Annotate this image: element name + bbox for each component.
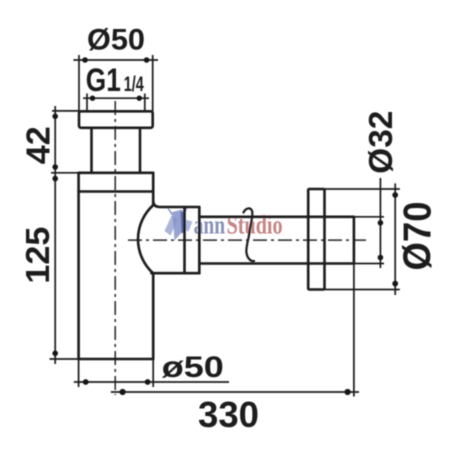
svg-text:ø50: ø50 <box>162 351 224 384</box>
svg-text:Ø70: Ø70 <box>397 202 440 271</box>
svg-text:1/4: 1/4 <box>124 73 144 96</box>
svg-text:330: 330 <box>198 394 259 435</box>
svg-text:Studio: Studio <box>227 210 283 240</box>
svg-text:42: 42 <box>19 126 56 164</box>
svg-text:Ø50: Ø50 <box>87 23 145 56</box>
svg-text:G1: G1 <box>86 62 121 98</box>
svg-text:125: 125 <box>19 227 56 284</box>
svg-text:Ø32: Ø32 <box>362 111 399 174</box>
